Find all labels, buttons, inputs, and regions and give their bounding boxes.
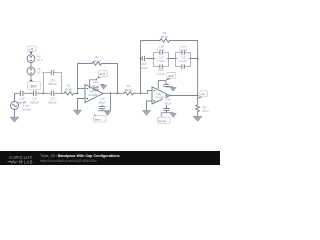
wire op-amp1 plus input to ground: [78, 99, 86, 111]
svg-text:+10: +10: [29, 48, 34, 51]
node junction stage2: [140, 92, 142, 94]
parallel cap box1: [154, 53, 169, 67]
node junction output2 cluster: [166, 95, 168, 97]
node junction output1: [110, 92, 112, 94]
wire V1 to ground: [14, 110, 16, 117]
capacitor C11 (series on bus): [34, 91, 36, 96]
ground (C3b): [172, 86, 174, 88]
wire between sources: [30, 63, 32, 67]
value label C1b: [90, 80, 100, 87]
node junction box1 left: [153, 58, 155, 60]
capacitor C20 (box2 bottom): [182, 64, 184, 68]
wire V3 bottom: [30, 75, 32, 79]
ground (op-amp1 plus): [73, 110, 81, 115]
ground (load): [193, 116, 202, 121]
wire op-amp1 output: [103, 92, 123, 94]
footer bar: [0, 151, 220, 165]
capacitor C14 (box2 top): [182, 50, 184, 54]
node junction R1/feedback: [77, 92, 79, 94]
svg-text:Tejas_99 / Bandpass With Cap C: Tejas_99 / Bandpass With Cap Configurati…: [40, 154, 120, 158]
flag -10 (below source stack): [28, 79, 41, 90]
wire op-amp2 output: [170, 95, 198, 97]
ground (C1a side): [107, 110, 109, 113]
svg-text:OA2: OA2: [157, 93, 163, 96]
wire outer feedback loop: [141, 41, 198, 96]
node junction R2 output: [117, 92, 119, 94]
wire output1 lower cluster: [98, 93, 111, 111]
wire inner feedback: [141, 58, 198, 60]
resistor R5 (load, vertical): [196, 104, 200, 112]
capacitor C19 (box1 bottom): [160, 64, 162, 68]
wire op-amp1 minus input: [78, 88, 86, 90]
svg-text:OP-AMP: OP-AMP: [88, 94, 98, 97]
wire output load: [197, 96, 199, 117]
capacitor C1b (minus node): [93, 88, 99, 92]
node junction box2 left: [175, 58, 176, 59]
node junction inner-left: [140, 58, 142, 60]
node junction bus/box: [43, 92, 45, 94]
ground (input source): [10, 117, 19, 122]
parallel cap box (left): [44, 73, 62, 94]
capacitor C16 (series inner feedback): [142, 56, 144, 61]
svg-text:http://circuitlab.com/c4nj7r84: http://circuitlab.com/c4nj7r84b29kc: [40, 159, 97, 163]
voltage source V3: [27, 67, 35, 75]
value label C3a: [163, 98, 174, 105]
svg-text:out: out: [201, 92, 205, 96]
svg-text:out1: out1: [100, 72, 106, 76]
capacitor C1a (output cluster): [99, 107, 105, 109]
node junction box1 right: [168, 58, 169, 59]
svg-text:low 1: low 1: [95, 117, 102, 121]
capacitor C3b: [163, 84, 169, 86]
voltage source V2: [27, 55, 35, 63]
capacitor C10 (series on bus): [21, 91, 23, 96]
wire output2 lower cluster: [161, 96, 173, 116]
op-amp OA2: [152, 87, 170, 104]
svg-text:LAB: LAB: [24, 160, 33, 165]
capacitor C3a: [164, 109, 170, 111]
op-amp OA1: [85, 85, 103, 103]
wire stage2 cluster top: [158, 81, 173, 89]
flag band out: [158, 116, 171, 123]
wire feedback stage1: [78, 64, 118, 94]
wire minus-node stub: [90, 78, 104, 88]
value label C1a: [97, 97, 107, 104]
svg-text:OA1: OA1: [90, 91, 96, 94]
resistor R3: [123, 92, 135, 95]
ground (C1b): [103, 84, 105, 87]
flag low1: [94, 114, 107, 122]
wire op-amp2 plus to ground: [147, 101, 153, 110]
resistor R4: [159, 39, 171, 42]
capacitor C13 (bypass top): [51, 70, 53, 75]
value label C15: [178, 55, 189, 63]
ground (op-amp2 plus): [142, 110, 150, 115]
capacitor C18 (box1 top): [160, 50, 162, 54]
svg-text:-10V: -10V: [29, 84, 37, 88]
wire main input bus: [15, 93, 78, 101]
capacitor C12 (series on bus in box): [51, 91, 53, 96]
wire R3 to op-amp2: [134, 91, 152, 94]
resistor R2: [91, 62, 103, 65]
node junction box2 right: [190, 58, 191, 59]
value label C17: [156, 55, 167, 63]
flag +10 (top of source stack): [28, 46, 37, 54]
ground (C3a side): [172, 112, 174, 115]
node junction inner-right: [197, 58, 199, 60]
footer logo resistor squiggle: [8, 160, 23, 163]
flag out2 (stage2 minus node): [165, 72, 176, 80]
flag out1 (minus node): [97, 71, 108, 79]
resistor R1: [63, 92, 75, 95]
node junction output2: [197, 95, 199, 97]
voltage source V1 (signal input): [11, 102, 19, 110]
svg-text:out2: out2: [168, 74, 174, 78]
svg-text:bp out: bp out: [159, 119, 166, 123]
flag out (final output): [198, 91, 208, 99]
parallel cap box2: [176, 53, 191, 67]
